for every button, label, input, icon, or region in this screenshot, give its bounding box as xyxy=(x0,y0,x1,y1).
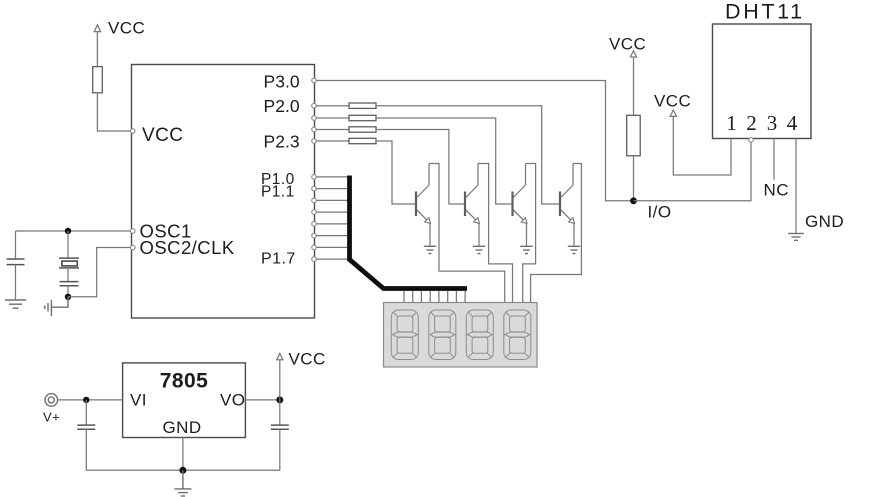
svg-text:VCC: VCC xyxy=(609,35,646,54)
svg-text:P1.1: P1.1 xyxy=(261,184,295,201)
display digit 1 xyxy=(391,310,418,360)
wire 7805 GND pin to rail xyxy=(182,438,184,471)
U1 pin OSC2/CLK xyxy=(131,245,136,250)
wire DHT11 pin3 (NC stub) xyxy=(773,139,775,180)
display digit 3 xyxy=(466,310,493,360)
capacitor C2 xyxy=(60,282,79,297)
transistor Q4 xyxy=(560,164,575,247)
svg-text:P2.3: P2.3 xyxy=(264,132,301,152)
VCC power symbol (DHT11 pin1) xyxy=(654,92,691,117)
resistor R4 xyxy=(349,127,376,132)
resistor R1 (VCC pull-up to U1 VCC pin) xyxy=(93,67,103,93)
wire P2.3 to R5 xyxy=(316,140,349,142)
MCU U1 box xyxy=(132,65,315,319)
svg-text:P2.0: P2.0 xyxy=(264,96,301,116)
node junction (GND rail) xyxy=(179,467,186,474)
U1 pin P2.0 xyxy=(312,103,317,108)
wire R1 to U1 VCC pin xyxy=(97,93,130,131)
svg-text:V+: V+ xyxy=(43,410,60,425)
ground (Q2 emitter) xyxy=(473,246,485,253)
wire R5 to Q1 base xyxy=(376,141,415,204)
wire R2 to Q4 base xyxy=(376,106,559,204)
U1 pin OSC1 xyxy=(131,229,136,234)
connector V+ input xyxy=(43,394,60,425)
svg-text:I/O: I/O xyxy=(648,203,672,222)
ground (Q1 emitter) xyxy=(424,246,436,253)
svg-text:NC: NC xyxy=(764,181,789,200)
wire R6 to I/O node xyxy=(633,156,635,201)
svg-text:4: 4 xyxy=(787,111,798,135)
display digit 2 xyxy=(429,310,456,360)
U1 pin P2.3 xyxy=(312,139,317,144)
wire V+ to VI xyxy=(58,399,123,401)
wires bus to display segment pins xyxy=(404,291,465,303)
wire I/O node to DHT11 pin2 xyxy=(634,142,752,201)
resistor R2 xyxy=(349,103,376,108)
4-digit 7-segment display DS1 body xyxy=(384,303,538,368)
display digit 4 xyxy=(504,310,531,360)
node junction (C3 top) xyxy=(83,397,89,403)
capacitor C1 xyxy=(7,231,25,300)
VCC power symbol (7805 output) xyxy=(277,350,326,400)
U1 pin VCC xyxy=(131,129,136,134)
svg-text:VCC: VCC xyxy=(108,19,145,38)
wire VO to VCC node xyxy=(245,399,279,401)
svg-text:VCC: VCC xyxy=(654,92,691,111)
wire P2.0 to R2 xyxy=(316,105,349,107)
U1 pins P1.0..P1.7 xyxy=(312,175,317,262)
wires P1.0..P1.7 to segment bus xyxy=(316,177,348,259)
svg-text:OSC2/CLK: OSC2/CLK xyxy=(140,237,235,258)
svg-text:VI: VI xyxy=(130,391,147,410)
transistor Q1 xyxy=(416,164,431,247)
node I/O junction xyxy=(630,197,637,204)
7805 regulator U3 box xyxy=(123,363,246,438)
wire P2.2 to R4 xyxy=(316,129,349,131)
svg-text:3: 3 xyxy=(767,111,778,135)
ground (DHT11 pin4) xyxy=(788,234,804,241)
svg-text:VO: VO xyxy=(220,391,245,410)
wire R4 to Q2 base xyxy=(376,130,464,205)
chassis ground (crystal) xyxy=(45,297,68,316)
transistor Q2 xyxy=(465,164,480,247)
svg-text:GND: GND xyxy=(805,212,844,231)
capacitor C4 xyxy=(271,400,289,470)
svg-text:VCC: VCC xyxy=(289,350,326,369)
ground (7805) xyxy=(174,470,191,496)
wire DHT11 pin1 to VCC xyxy=(673,116,731,175)
VCC power symbol (top left) xyxy=(94,19,145,67)
wire DHT11 pin4 to ground xyxy=(795,139,797,234)
wire Q4 collector to display digit4 xyxy=(531,164,582,304)
ground (Q3 emitter) xyxy=(520,246,532,253)
segment bus (thick) xyxy=(350,176,468,289)
DHT11 U2 box xyxy=(713,24,812,139)
wire Q1 collector to display digit1 xyxy=(429,164,505,304)
node junction (VO/VCC) xyxy=(276,396,283,403)
svg-text:VCC: VCC xyxy=(142,125,183,146)
transistor Q3 xyxy=(513,164,528,247)
wire P3.0 to DHT11 data node xyxy=(316,81,633,201)
svg-text:P1.7: P1.7 xyxy=(261,250,296,267)
resistor R6 (DHT11 data pull-up) xyxy=(627,115,641,156)
resistor R5 xyxy=(349,138,376,143)
svg-text:2: 2 xyxy=(746,111,757,135)
wire Q3 collector to display digit3 xyxy=(523,164,536,304)
svg-text:GND: GND xyxy=(163,418,202,437)
U1 pin P3.0 xyxy=(312,78,317,83)
node junction on OSC1 wire xyxy=(65,228,71,234)
resistor R3 xyxy=(349,115,376,120)
U1 pin P2.1 xyxy=(312,116,317,121)
wire R3 to Q3 base xyxy=(376,118,512,204)
node junction (crystal bottom) xyxy=(65,294,71,300)
svg-text:DHT11: DHT11 xyxy=(725,0,803,24)
wire OSC1 net xyxy=(16,230,131,232)
wire ground rail xyxy=(86,469,279,471)
svg-text:P3.0: P3.0 xyxy=(264,72,301,92)
wire Q2 collector to display digit2 xyxy=(478,164,513,304)
capacitor C3 xyxy=(77,400,95,470)
crystal Y1 xyxy=(59,231,79,282)
wire crystal bottom to OSC2 xyxy=(68,248,131,297)
ground (below C1) xyxy=(5,300,26,308)
svg-text:7805: 7805 xyxy=(160,370,209,393)
wire P2.1 to R3 xyxy=(316,117,349,119)
DHT11 pin 2 circle xyxy=(749,138,754,143)
VCC power symbol (above R6 pull-up) xyxy=(609,35,646,116)
svg-text:1: 1 xyxy=(726,111,737,135)
ground (Q4 emitter) xyxy=(568,246,580,253)
U1 pin P2.2 xyxy=(312,127,317,132)
